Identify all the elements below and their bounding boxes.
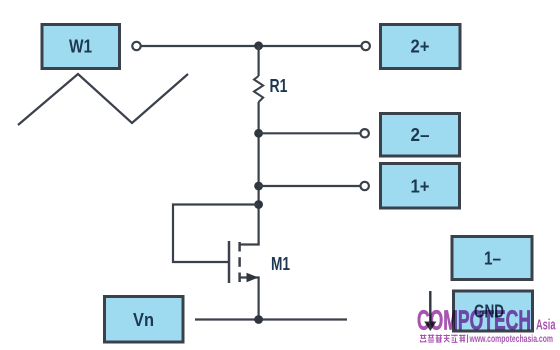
watermark COMPOTECH Asia (417, 305, 556, 336)
svg-text:1–: 1– (484, 249, 501, 269)
resistor R1 (254, 76, 288, 102)
terminal box 1- (452, 237, 532, 280)
svg-text:Vn: Vn (133, 310, 154, 330)
svg-text:2+: 2+ (411, 37, 430, 57)
svg-text:W1: W1 (69, 37, 92, 57)
pin circle 2+ (362, 42, 370, 50)
terminal box 1+ (381, 164, 460, 209)
triangle waveform symbol (18, 74, 188, 125)
terminal box W1 (42, 25, 120, 69)
wire vertical R1 to drain (258, 102, 260, 245)
pin circle 1+ (361, 182, 369, 190)
node junction source rail (254, 315, 263, 324)
watermark url text (469, 333, 553, 345)
wire bottom rail (195, 318, 347, 320)
svg-text:Asia: Asia (536, 317, 556, 334)
wire gate feedback loop (173, 205, 259, 263)
wire vertical top segment (258, 46, 260, 76)
node junction top (254, 41, 263, 50)
pin circle 2- (361, 129, 369, 137)
pin circle W1 output (132, 42, 140, 50)
terminal box 2+ (381, 25, 461, 69)
svg-text:1+: 1+ (411, 177, 430, 197)
terminal box GND (454, 291, 533, 331)
node junction gate (254, 200, 263, 209)
wire source to rail (258, 278, 260, 320)
ground arrow (424, 291, 436, 331)
svg-text:COMPOTECH: COMPOTECH (417, 305, 531, 336)
svg-text:R1: R1 (270, 76, 288, 96)
wire W1 to 2+ (142, 45, 361, 47)
wire node to 1+ (259, 185, 360, 187)
node junction 2- (254, 129, 263, 138)
svg-text:2–: 2– (411, 125, 430, 145)
terminal box 2- (381, 114, 460, 157)
node junction 1+ (254, 182, 263, 191)
svg-text:www.compotechasia.com: www.compotechasia.com (469, 333, 553, 345)
transistor M1 (229, 241, 290, 283)
terminal box Vn (105, 297, 184, 343)
watermark chinese tagline (420, 335, 468, 343)
svg-text:M1: M1 (271, 254, 290, 274)
wire node to 2- (259, 132, 360, 134)
